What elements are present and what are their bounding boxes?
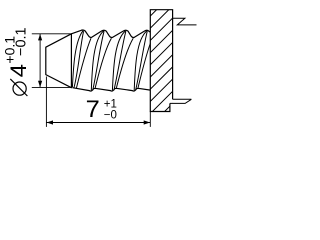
svg-text:4: 4: [6, 64, 31, 77]
svg-text:7: 7: [86, 97, 100, 123]
svg-text:−0: −0: [104, 109, 117, 121]
svg-text:−0.1: −0.1: [13, 27, 29, 56]
